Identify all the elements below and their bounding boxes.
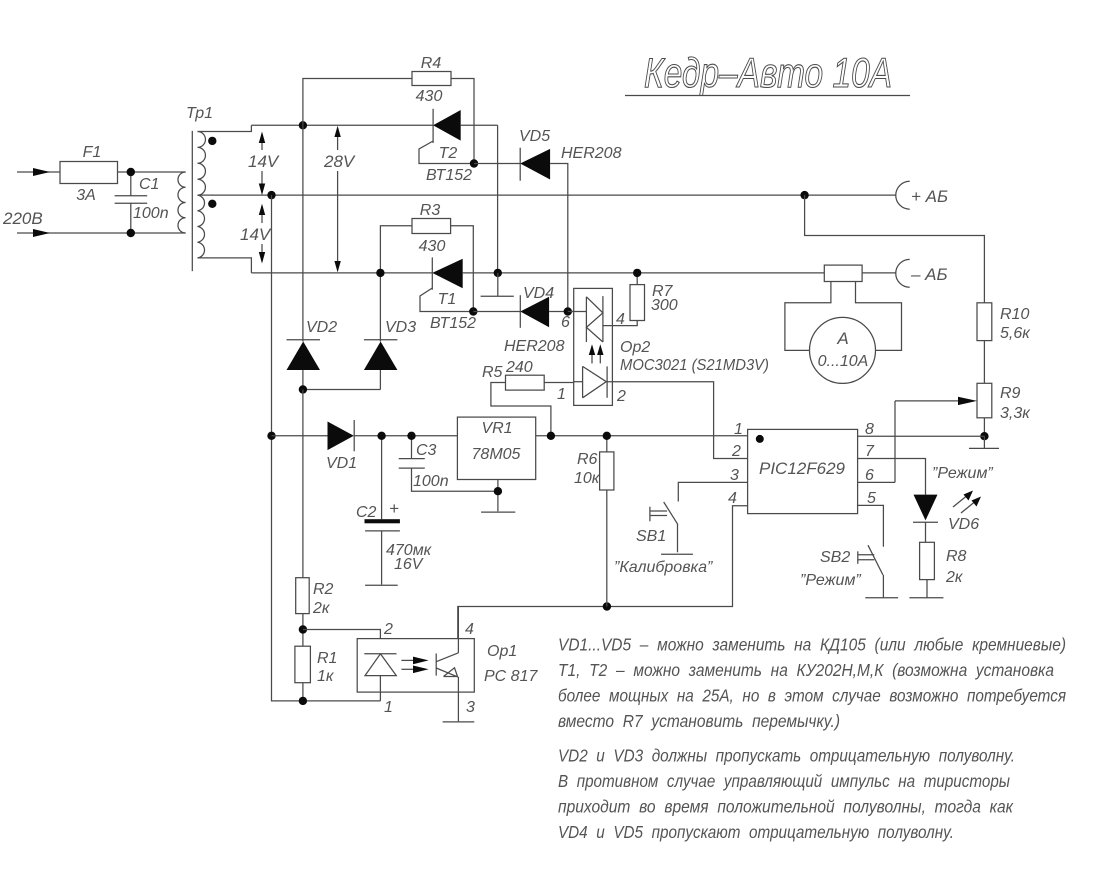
transformer Tp1 secondary winding 1	[198, 125, 252, 195]
svg-text:”Режим”: ”Режим”	[932, 465, 993, 482]
wire T1 gate to VD4	[473, 311, 520, 313]
dimension arrow 14V upper	[259, 132, 265, 196]
node phase dot winding 1	[208, 137, 216, 145]
capacitor C3	[399, 436, 498, 491]
resistor R7	[630, 273, 645, 321]
wire mains input top	[17, 168, 60, 176]
svg-text:А: А	[836, 329, 848, 348]
wire VD2 junction down to R2	[302, 390, 304, 578]
svg-text:10к: 10к	[574, 470, 601, 487]
svg-text:6: 6	[561, 314, 570, 331]
wire PIC pin7 to VD6	[858, 459, 926, 495]
svg-text:SB1: SB1	[636, 528, 666, 545]
wire PIC pin4 to common rail	[458, 506, 748, 639]
svg-text:R5: R5	[482, 364, 503, 381]
note text block paragraph 1	[558, 635, 1066, 732]
capacitor C1	[115, 172, 148, 233]
diode VD5	[520, 148, 568, 312]
svg-text:C3: C3	[416, 442, 437, 459]
node left vertical at +12V line	[267, 432, 275, 440]
svg-text:VD6: VD6	[948, 516, 979, 533]
svg-text:VD3: VD3	[385, 319, 416, 336]
svg-text:+: +	[389, 499, 399, 518]
svg-text:78М05: 78М05	[472, 446, 521, 463]
svg-text:– АБ: – АБ	[910, 265, 948, 284]
diode VD4	[520, 295, 573, 328]
node VD4 VD5 junction	[564, 307, 572, 315]
LED VD6	[913, 491, 981, 543]
wire R2 top to Op1 pin2	[303, 630, 381, 654]
transformer Tp1 primary winding	[178, 172, 186, 233]
svg-text:8: 8	[865, 421, 874, 438]
wire mains input bottom	[17, 229, 186, 237]
capacitor C2	[365, 436, 400, 586]
node R6 top	[603, 432, 611, 440]
svg-text:VD5: VD5	[519, 128, 550, 145]
svg-text:”Калибровка”: ”Калибровка”	[614, 559, 713, 576]
wire T2 gate to VD5	[474, 163, 520, 165]
svg-text:РС 817: РС 817	[484, 668, 538, 685]
optotriac Op2	[568, 288, 637, 405]
fuse F1	[60, 162, 186, 184]
terminal +АБ	[896, 181, 948, 209]
dimension arrow 28V	[334, 126, 340, 273]
svg-text:VR1: VR1	[481, 420, 512, 437]
svg-text:14V: 14V	[240, 225, 272, 244]
node middle rail left tap	[267, 191, 275, 199]
svg-text:2к: 2к	[312, 600, 331, 617]
node top rail R4 tap	[299, 121, 307, 129]
svg-text:28V: 28V	[323, 152, 356, 171]
resistor R10	[977, 303, 992, 341]
svg-text:R9: R9	[1000, 385, 1021, 402]
diode VD2	[287, 125, 321, 389]
terminal -АБ	[896, 259, 948, 287]
node phase dot winding 2	[208, 200, 216, 208]
svg-text:3: 3	[466, 699, 475, 716]
diode VD3	[364, 273, 398, 390]
wire Op2 pin2 to PIC pin2	[607, 382, 748, 459]
svg-text:”Режим”: ”Режим”	[800, 572, 861, 589]
node R1 bottom	[299, 697, 307, 705]
svg-text:VD4: VD4	[523, 285, 554, 302]
svg-text:R6: R6	[577, 451, 598, 468]
svg-text:5: 5	[867, 490, 876, 507]
resistor R5	[491, 375, 574, 436]
switch SB1	[650, 502, 693, 554]
svg-text:2: 2	[383, 621, 393, 638]
svg-text:3: 3	[730, 467, 739, 484]
svg-text:3,3к: 3,3к	[1000, 405, 1031, 422]
ground bar near T2 anode	[481, 273, 514, 296]
ammeter A 0...10A	[785, 282, 902, 384]
wire PIC pin5 to SB2	[858, 505, 884, 546]
svg-text:430: 430	[416, 88, 443, 105]
svg-text:VD2: VD2	[306, 319, 337, 336]
wire shunt to -АБ	[862, 272, 896, 274]
svg-text:Т1, Т2 – можно заменить на: Т1, Т2 – можно заменить на КУ202Н,М,К (в…	[558, 660, 1054, 680]
svg-text:14V: 14V	[248, 152, 280, 171]
svg-text:4: 4	[728, 490, 737, 507]
wire left vertical from middle rail	[272, 195, 381, 701]
svg-text:Т1: Т1	[438, 291, 457, 308]
svg-text:SB2: SB2	[820, 549, 850, 566]
svg-text:более мощных на 25А, но в это: более мощных на 25А, но в этом случае во…	[558, 686, 1066, 706]
resistor R3	[380, 219, 473, 312]
svg-text:R1: R1	[317, 650, 337, 667]
wire PIC pin8 to R9 bottom	[858, 435, 985, 437]
node R7 top	[633, 269, 641, 277]
svg-text:2: 2	[731, 443, 741, 460]
resistor R4	[303, 72, 474, 164]
svg-text:1к: 1к	[317, 668, 335, 685]
resistor R1	[295, 646, 311, 701]
svg-text:2: 2	[616, 388, 626, 405]
svg-text:Тр1: Тр1	[186, 105, 213, 122]
svg-text:1: 1	[557, 386, 566, 403]
svg-text:5,6к: 5,6к	[1000, 325, 1031, 342]
svg-text:220В: 220В	[2, 209, 43, 228]
wire VR1 output	[536, 435, 748, 437]
svg-text:Т2: Т2	[439, 145, 458, 162]
svg-text:HER208: HER208	[504, 338, 565, 355]
node T1 gate junction	[469, 307, 477, 315]
svg-text:+ АБ: + АБ	[911, 187, 948, 206]
node VD2 VD3 junction	[299, 385, 307, 393]
regulator VR1	[457, 417, 535, 479]
svg-text:Ор2: Ор2	[620, 339, 650, 356]
node VD3 bottom rail	[376, 269, 384, 277]
svg-text:16V: 16V	[394, 556, 424, 573]
svg-text:МОС3021 (S21MD3V): МОС3021 (S21MD3V)	[620, 357, 769, 374]
switch SB2	[858, 545, 898, 598]
svg-text:R8: R8	[946, 548, 967, 565]
wire R10 to R9	[983, 341, 985, 384]
title Кедр-Авто 10А	[625, 49, 910, 96]
node C1 top	[127, 168, 135, 176]
IC U1 PIC12F629	[748, 429, 858, 513]
node C1 bottom	[127, 229, 135, 237]
svg-text:R3: R3	[420, 202, 441, 219]
svg-text:300: 300	[651, 297, 678, 314]
svg-text:4: 4	[616, 311, 625, 328]
node T2 anode bottom rail	[494, 269, 502, 277]
svg-text:430: 430	[419, 238, 446, 255]
svg-text:6: 6	[865, 467, 874, 484]
node C2 top	[377, 432, 385, 440]
wire middle rail center tap to +АБ	[198, 194, 896, 196]
dimension arrow 14V lower	[259, 204, 265, 264]
optocoupler Op1	[357, 607, 474, 722]
transformer Tp1 core	[191, 131, 193, 271]
svg-text:7: 7	[865, 443, 875, 460]
svg-text:2к: 2к	[945, 569, 964, 586]
svg-text:PIC12F629: PIC12F629	[759, 459, 846, 478]
svg-text:R4: R4	[421, 55, 442, 72]
svg-text:F1: F1	[83, 144, 102, 161]
svg-text:3А: 3А	[76, 187, 96, 204]
svg-text:C2: C2	[356, 504, 377, 521]
svg-text:R10: R10	[1000, 306, 1029, 323]
node R6 bottom	[603, 602, 611, 610]
node C3 top	[407, 432, 415, 440]
wire bottom rail after T1	[463, 272, 825, 274]
node R2 R1 junction	[299, 625, 307, 633]
svg-text:100n: 100n	[413, 473, 449, 490]
node R5 tap	[547, 432, 555, 440]
svg-text:HER208: HER208	[561, 145, 622, 162]
svg-text:Кедр–Авто 10А: Кедр–Авто 10А	[644, 49, 892, 96]
node T2 gate junction	[470, 159, 478, 167]
svg-text:VD1: VD1	[326, 455, 357, 472]
node VR1 ground C3	[494, 487, 502, 495]
wire PIC pin6 to R9 wiper	[858, 481, 895, 483]
resistor R8	[909, 542, 943, 597]
svg-text:100n: 100n	[133, 205, 169, 222]
svg-text:VD1...VD5 – можно заменить н: VD1...VD5 – можно заменить на КД105 (или…	[558, 635, 1066, 655]
diode VD1	[272, 420, 458, 451]
svg-text:C1: C1	[139, 176, 159, 193]
wire R9 bottom to pin8 node	[983, 418, 985, 436]
transformer Tp1 secondary winding 2	[198, 195, 252, 273]
thyristor T2	[419, 109, 498, 164]
node +АБ rail tap	[800, 191, 808, 199]
note text block paragraph 2	[558, 746, 1015, 843]
svg-text:1: 1	[384, 699, 393, 716]
wire bottom rail	[251, 272, 432, 274]
svg-text:вместо R7 установить перемычку: вместо R7 установить перемычку.)	[558, 711, 840, 731]
svg-text:VD2 и VD3 должны пропускать от: VD2 и VD3 должны пропускать отрицательну…	[558, 746, 1015, 766]
svg-text:0...10А: 0...10А	[818, 353, 869, 370]
svg-text:ВТ152: ВТ152	[430, 315, 476, 332]
wire +АБ tap to R10	[805, 195, 985, 303]
wire T2 anode down to bottom rail	[497, 125, 499, 273]
svg-text:R2: R2	[313, 581, 334, 598]
svg-text:приходит во время положительно: приходит во время положительной полуволн…	[558, 797, 1014, 817]
thyristor T1	[420, 257, 473, 311]
wire top rail 28V	[251, 124, 433, 126]
wire VD2 VD3 cathode join	[303, 389, 381, 391]
ground VR1	[481, 480, 515, 513]
ground pin8	[969, 436, 999, 448]
svg-text:Ор1: Ор1	[487, 643, 517, 660]
ammeter shunt	[824, 265, 862, 281]
wire PIC pin3 to SB1	[678, 482, 747, 501]
svg-text:VD4 и VD5 пропускают отрицател: VD4 и VD5 пропускают отрицательную полув…	[558, 822, 954, 842]
svg-text:ВТ152: ВТ152	[426, 167, 472, 184]
svg-text:4: 4	[465, 621, 474, 638]
svg-text:1: 1	[734, 421, 743, 438]
potentiometer R9	[895, 383, 992, 482]
resistor R2	[296, 578, 310, 647]
svg-text:240: 240	[505, 359, 533, 376]
node R9 pin8 ground	[980, 432, 988, 440]
svg-text:В противном случае управляющий: В противном случае управляющий импульс н…	[558, 771, 1010, 791]
resistor R6	[600, 436, 614, 607]
